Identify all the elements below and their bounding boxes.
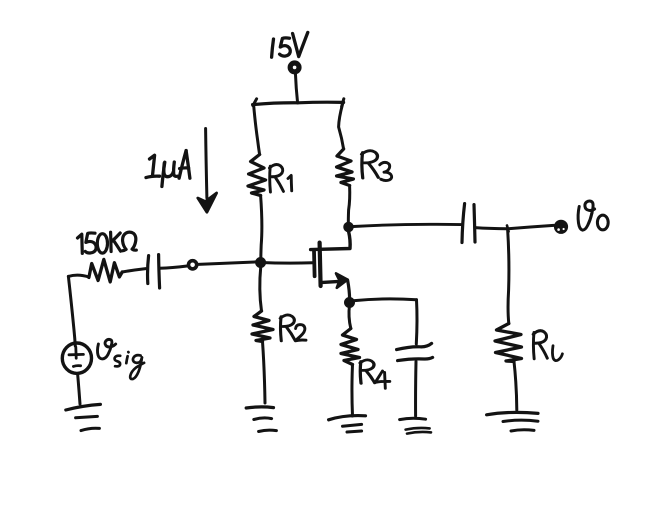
wire output cap to vo terminal	[475, 225, 554, 228]
label R4	[360, 360, 375, 384]
output terminal vo	[556, 222, 566, 232]
capacitor C1 right plate	[159, 255, 160, 288]
wire R3 bottom lead	[348, 186, 349, 225]
wire input corner down to vsig	[68, 276, 75, 346]
capacitor C2 left plate	[462, 204, 465, 243]
node input open terminal	[189, 261, 197, 269]
transistor Q1 source arrow	[336, 273, 348, 287]
wire bypass cap bottom lead	[414, 362, 417, 417]
capacitor C3 bottom plate	[398, 357, 433, 360]
resistor RL	[495, 324, 522, 362]
capacitor C2 right plate	[474, 205, 475, 242]
wire R1 bottom lead	[261, 196, 262, 262]
ground R4	[329, 416, 366, 420]
wire source node to bypass cap	[355, 299, 417, 301]
transistor Q1 source lead	[321, 282, 337, 283]
wire R1 top lead	[254, 105, 260, 155]
current arrow 1uA	[206, 129, 207, 199]
transistor Q1 gate bar	[312, 251, 316, 277]
wire R4 top lead	[349, 305, 351, 329]
ground RL	[487, 412, 538, 414]
source vsig plus sign	[69, 353, 83, 356]
label vsig sig letters	[115, 352, 145, 379]
capacitor C1 left plate	[148, 256, 149, 284]
wire vsig to ground	[78, 374, 80, 404]
resistor Rsig zigzag	[89, 259, 122, 282]
label R1	[269, 164, 283, 192]
wire RL bottom lead	[514, 362, 517, 411]
15V supply terminal	[290, 63, 299, 72]
label vo script v	[578, 207, 592, 231]
node drain junction	[345, 223, 353, 231]
wire drain node to output cap	[354, 224, 462, 226]
resistor R3	[337, 149, 354, 186]
label 15V	[272, 32, 308, 57]
transistor Q1 channel bar	[320, 243, 321, 286]
ground R2	[246, 407, 273, 408]
resistor R4	[341, 329, 360, 365]
wire R4 bottom lead	[350, 365, 354, 417]
node gate junction	[256, 258, 264, 266]
wire R3 top lead	[339, 104, 344, 149]
wire R2 top lead	[260, 266, 262, 311]
wire R2 bottom lead	[263, 342, 266, 404]
resistor R2	[252, 311, 273, 342]
wire supply terminal to top rail	[295, 73, 297, 103]
label vo subscript o	[597, 215, 608, 230]
label R3	[362, 151, 379, 178]
wire open node to gate node	[198, 262, 256, 265]
ground bypass	[400, 418, 426, 419]
wire bypass cap top lead	[415, 300, 419, 344]
source vsig minus sign	[73, 364, 80, 368]
wire RL top lead	[508, 229, 509, 324]
wire top rail	[253, 102, 344, 104]
source vsig circle	[62, 343, 91, 373]
label 1uA	[146, 151, 190, 187]
ground vsig	[66, 404, 101, 410]
label vsig script v	[97, 344, 111, 359]
junction tick at RL	[507, 226, 509, 232]
wire input corner to resistor	[68, 275, 89, 277]
transistor Q1 drain lead	[311, 232, 351, 250]
label RL	[533, 331, 547, 359]
transistor Q1 source drop	[348, 280, 350, 300]
node source junction	[345, 298, 353, 306]
resistor R1	[248, 155, 266, 196]
capacitor C3 top plate	[397, 343, 432, 349]
wire C1 to open node	[160, 266, 187, 268]
label R2	[280, 315, 295, 341]
wire gate lead	[261, 261, 313, 265]
label 150Kohm	[78, 232, 137, 253]
wire resistor to C1	[122, 269, 146, 272]
